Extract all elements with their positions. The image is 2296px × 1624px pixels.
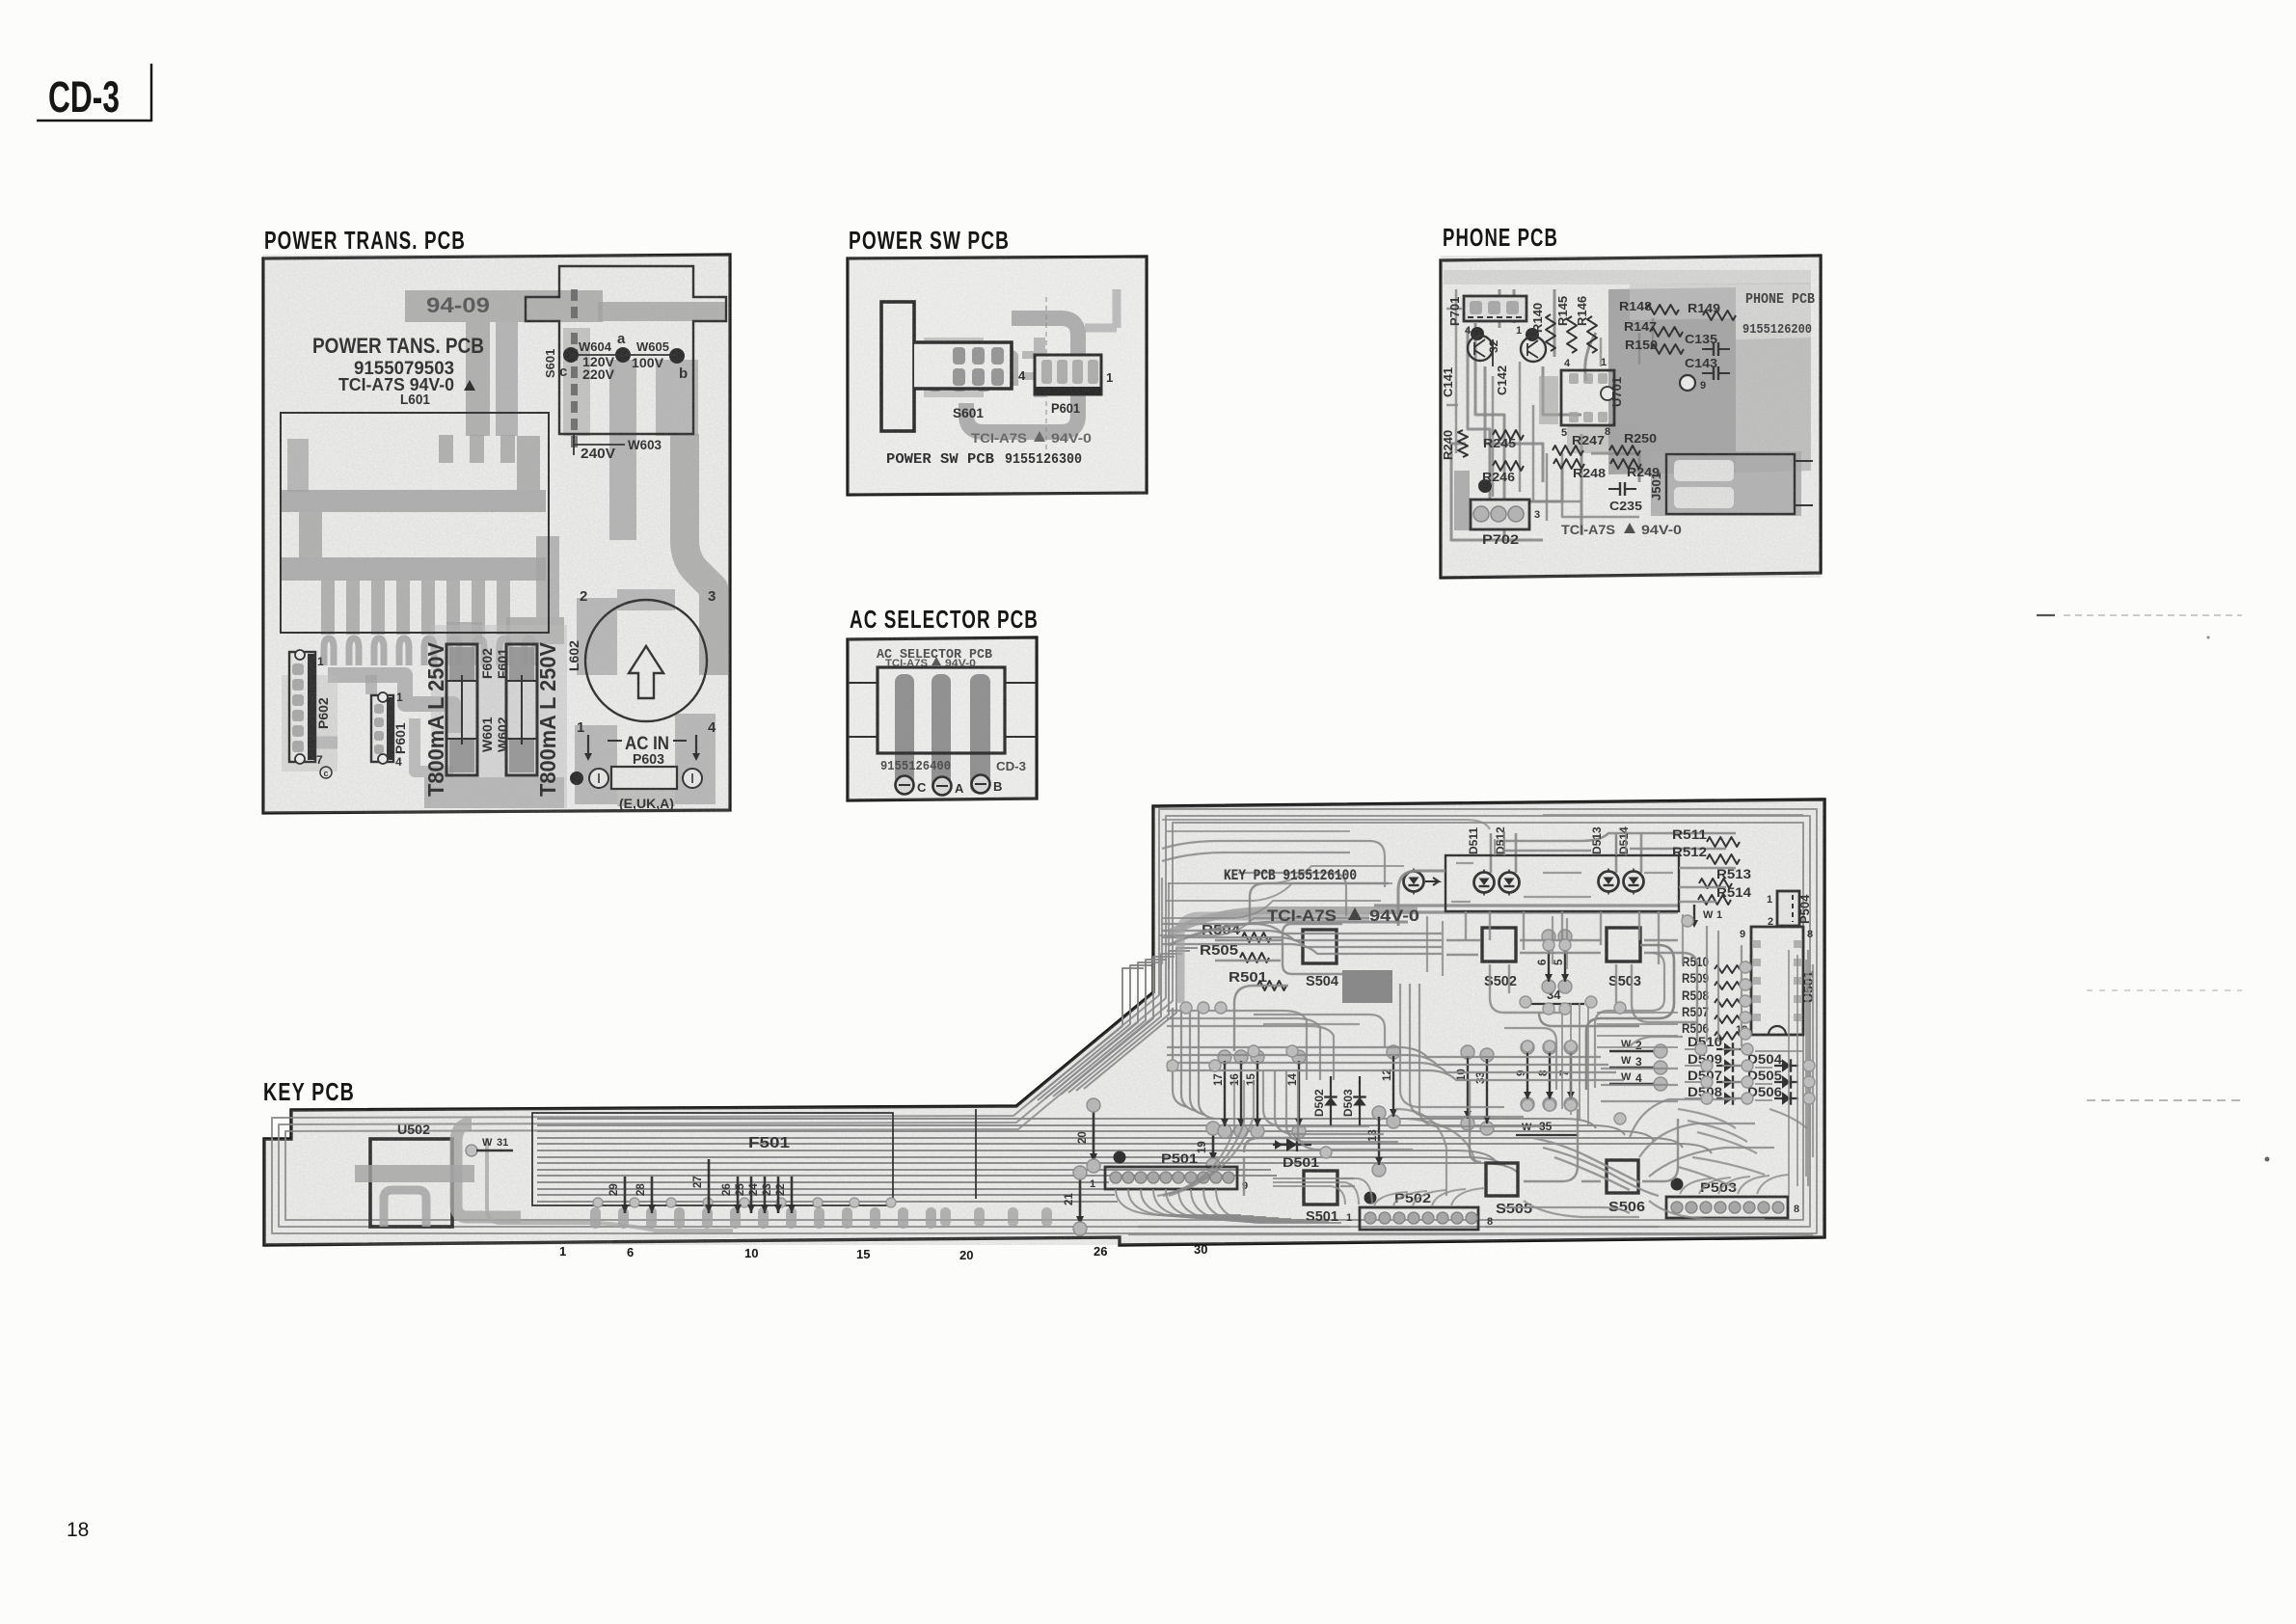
F501 second outline xyxy=(975,1109,977,1199)
copper trace: band A xyxy=(282,490,546,512)
copper trace: columns below top band xyxy=(466,322,490,436)
diagonal bundle into right section xyxy=(1030,968,1144,1102)
PHONE PCB board outline xyxy=(1441,256,1821,578)
P601 connector xyxy=(1035,355,1101,394)
svg-text:18: 18 xyxy=(67,1519,89,1541)
jumper W15 xyxy=(1251,1050,1264,1064)
copper around LED box interior xyxy=(1451,863,1673,902)
switch S506 xyxy=(1607,1160,1638,1193)
jumper W13 xyxy=(1372,1106,1386,1120)
copper trace: band B with comb xyxy=(282,557,546,581)
LED D511 xyxy=(1474,873,1495,893)
wire W604/W605 connecting pads xyxy=(571,354,677,356)
S601 arm xyxy=(914,342,1012,389)
jumper W26 xyxy=(737,1177,740,1213)
svg-text:26: 26 xyxy=(1094,1244,1107,1259)
extra finger pads xyxy=(940,1207,951,1227)
voltage selector sub-box xyxy=(526,266,726,434)
copper arcs mid-bottom xyxy=(1263,1070,1369,1126)
copper trace: stair to connectors xyxy=(328,675,453,733)
jumper W33 xyxy=(1480,1048,1494,1062)
switch S505 xyxy=(1486,1163,1518,1196)
connector P501 xyxy=(1105,1167,1237,1189)
connector P502 xyxy=(1360,1207,1478,1230)
switch S502 xyxy=(1482,928,1516,961)
copper trace: right wide vertical run xyxy=(685,434,714,675)
ground copper pour right xyxy=(1608,287,1736,474)
jumper W2 xyxy=(1609,1050,1658,1052)
scan artifact dashes right margin xyxy=(2037,614,2055,616)
jumper W25 xyxy=(750,1177,753,1213)
jumper W8 xyxy=(1543,1041,1556,1054)
jumper W29 xyxy=(624,1177,627,1213)
jumper W17 xyxy=(1218,1050,1231,1064)
switch S503 xyxy=(1607,928,1640,961)
switch S501 xyxy=(1304,1171,1337,1204)
copper trace: pad bumps row xyxy=(324,638,334,665)
copper top margin lines xyxy=(1162,815,1803,831)
IC U501 xyxy=(1751,927,1803,1035)
inner frame xyxy=(878,667,1005,753)
jumper W22 xyxy=(791,1177,794,1213)
LED D514 xyxy=(1624,872,1644,892)
pad 9 xyxy=(1680,375,1695,391)
jumper 32 xyxy=(1492,339,1494,366)
diode D501 xyxy=(1273,1144,1311,1146)
copper maze xyxy=(966,318,1078,432)
diode D503 xyxy=(1359,1076,1361,1126)
jumper W28 xyxy=(651,1177,654,1213)
LED D513 xyxy=(1599,872,1619,892)
copper mesh center xyxy=(1167,1011,1307,1080)
wire loops following board outline xyxy=(272,809,1817,1233)
POWER SW PCB board outline xyxy=(848,257,1147,495)
copyright mark xyxy=(320,767,332,778)
jack J501 xyxy=(1666,454,1795,514)
wire W603 xyxy=(574,444,625,446)
scan noise overlays (decorative) xyxy=(263,255,730,813)
svg-text:CD-3: CD-3 xyxy=(48,72,120,122)
svg-text:KEY PCB: KEY PCB xyxy=(263,1077,355,1106)
header frame line vertical xyxy=(150,64,153,122)
connector P503 xyxy=(1666,1197,1788,1218)
jumper W14 xyxy=(1292,1050,1306,1064)
copper trace: under fuses xyxy=(424,777,564,808)
connector P601 xyxy=(371,695,393,762)
jumper bars xyxy=(895,674,914,794)
jumper W1 xyxy=(1693,905,1695,924)
fuse F602 xyxy=(446,644,477,775)
jumper W27 xyxy=(708,1159,711,1213)
connector P701 xyxy=(1464,296,1526,321)
copper fan below P501 xyxy=(1116,1189,1241,1215)
jumper 35 xyxy=(1516,1134,1578,1136)
jumper W6 xyxy=(1542,930,1555,943)
svg-text:15: 15 xyxy=(856,1247,870,1261)
LED reference symbol xyxy=(1404,872,1424,892)
node c pad xyxy=(563,347,579,363)
jumper W19 xyxy=(1212,1131,1215,1161)
jumper 34 xyxy=(1523,1003,1584,1005)
jumper W12 xyxy=(1387,1045,1400,1059)
copper bus network right section xyxy=(1162,924,1442,934)
pads C A B xyxy=(896,776,914,795)
transistor C142 xyxy=(1526,328,1539,341)
AC SELECTOR board outline xyxy=(848,637,1037,800)
jumper W16 xyxy=(1234,1050,1248,1064)
svg-text:1: 1 xyxy=(559,1244,566,1259)
connector P504 xyxy=(1777,891,1799,926)
node b pad xyxy=(669,348,685,364)
op-amp U701 xyxy=(1561,370,1614,425)
coil L602 circle xyxy=(585,600,707,721)
jumper W5 xyxy=(1558,930,1572,943)
pad row small circles xyxy=(593,1198,603,1207)
fuse F601 xyxy=(506,644,537,775)
jumper W7 xyxy=(1564,1041,1578,1054)
copper band through U502 xyxy=(355,1165,474,1182)
connector P603 xyxy=(611,767,677,789)
connector P602 xyxy=(289,652,315,762)
jumper W10 xyxy=(1461,1045,1474,1059)
svg-text:POWER TRANS. PCB: POWER TRANS. PCB xyxy=(264,226,466,255)
jumper W3 xyxy=(1609,1067,1658,1069)
copper verticals upper mid xyxy=(1427,914,1683,976)
jumper W21 xyxy=(1079,1176,1082,1225)
LED D512 xyxy=(1499,873,1520,893)
dark blob xyxy=(1342,970,1392,1003)
copper pads xyxy=(1180,1002,1192,1014)
jumper W31 xyxy=(466,1145,477,1156)
S601 contact pads xyxy=(953,347,965,365)
copper right column bundle xyxy=(1788,950,1790,1196)
AC IN arrows xyxy=(587,735,589,754)
POWER TRANS PCB board outline xyxy=(263,255,730,813)
S601 switch slider dark marks xyxy=(571,289,578,301)
svg-text:30: 30 xyxy=(1194,1242,1207,1257)
jumper W24 xyxy=(764,1177,767,1213)
wire bus left strip xyxy=(537,1119,1596,1128)
copper loop right of U502 xyxy=(456,1123,521,1217)
copper trace: stub top-left xyxy=(287,439,309,492)
diode D502 xyxy=(1330,1076,1332,1126)
S601 switch body xyxy=(881,302,914,431)
connector P702 xyxy=(1471,500,1529,529)
svg-text:PHONE PCB: PHONE PCB xyxy=(1443,223,1558,252)
inner board rectangle xyxy=(281,413,549,633)
copper fan below P502/P503 xyxy=(1374,1192,1408,1205)
jumper W4 xyxy=(1609,1083,1658,1085)
svg-text:6: 6 xyxy=(627,1245,634,1259)
arrow symbol in circle xyxy=(629,646,663,698)
jumper W23 xyxy=(777,1177,780,1213)
svg-text:10: 10 xyxy=(744,1246,758,1260)
switch S504 xyxy=(1303,930,1337,963)
copper trace: inside voltage sub-box columns xyxy=(609,360,636,540)
transistor C141 xyxy=(1471,327,1484,340)
KEY PCB board outline xyxy=(264,799,1824,1245)
copper diag near top-left of section xyxy=(1159,918,1369,935)
svg-text:AC SELECTOR PCB: AC SELECTOR PCB xyxy=(850,605,1039,634)
svg-text:20: 20 xyxy=(959,1248,973,1262)
jumper W20 xyxy=(1093,1108,1095,1162)
wires to edges xyxy=(848,682,878,684)
F501 finger pads xyxy=(590,1207,601,1229)
copper trace: top band 94-09 xyxy=(405,290,603,322)
IC U502 xyxy=(370,1139,452,1227)
left trace network approx xyxy=(1475,323,1504,501)
LED box xyxy=(1445,855,1679,911)
jumper W9 xyxy=(1521,1041,1534,1054)
node a pad xyxy=(615,347,631,363)
header frame line bottom xyxy=(37,120,151,122)
svg-text:POWER SW PCB: POWER SW PCB xyxy=(849,226,1010,255)
F501 flat cable outline xyxy=(532,1113,893,1205)
